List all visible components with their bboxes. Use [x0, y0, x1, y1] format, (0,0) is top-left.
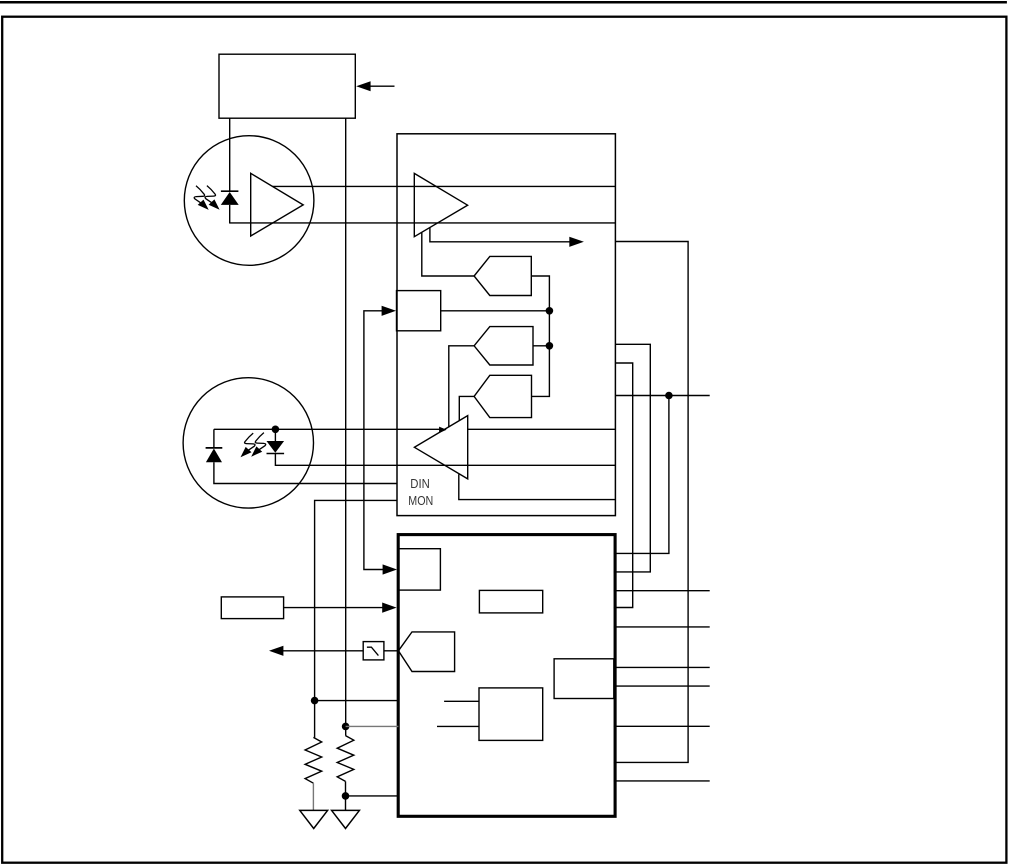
wire to flag F1 — [422, 232, 474, 276]
node dot on R2 net upper — [342, 723, 350, 731]
wire ROSA output + — [273, 185, 616, 187]
arrowhead at driver hypotenuse — [439, 427, 447, 433]
arrow into top box — [356, 81, 394, 91]
svg-text:DIN: DIN — [410, 476, 430, 491]
wire MON net into lower block — [315, 700, 399, 702]
wire MON pin to lower left net — [315, 500, 397, 700]
resistor R2 — [337, 736, 354, 782]
page top rule — [0, 1, 1007, 4]
photodiode D1 — [221, 192, 239, 205]
wire filter output going left with arrow — [283, 650, 364, 652]
arrowhead filter output — [269, 646, 283, 656]
wire driver input upper — [468, 428, 616, 430]
wire upper block pin to lower block right pin 1 — [614, 242, 688, 763]
wire upper block pin to lower block right pin 3 — [614, 363, 633, 608]
TOSA circle — [183, 378, 313, 508]
wire upper block pin to lower block right pin 2 — [614, 344, 651, 572]
ROSA circle — [184, 136, 314, 266]
wire flag F3 input — [459, 396, 474, 421]
svg-text:MON: MON — [408, 493, 433, 508]
wire long vertical from top box right down to resistor R2 — [345, 118, 347, 735]
node dot laser anode — [272, 426, 280, 434]
lower IC block — [398, 535, 615, 817]
ROSA preamp triangle — [251, 173, 304, 236]
wire laser cathode down — [275, 454, 615, 466]
wire with arrow into small box, continuing down to lower block — [364, 311, 384, 570]
external stub 1 — [614, 590, 710, 592]
external stub 6 — [614, 780, 710, 782]
wire monitor pd bottom lead to DIN pin — [214, 462, 397, 483]
wire from left input box with arrow into lower block — [284, 607, 384, 609]
wire upper block pin to external stub with junction — [615, 395, 710, 397]
wire junction down into lower block right pin — [614, 396, 669, 554]
wire photodiode anode lead — [229, 205, 231, 224]
wire R2 net into lower block — [346, 725, 399, 727]
flag F2 — [474, 327, 533, 365]
wire bias line to driver with arrow — [214, 428, 440, 430]
wire from top box left to photodiode — [229, 118, 231, 191]
node junction dot — [546, 307, 554, 315]
laser diode — [267, 441, 285, 453]
wire monitor pd top lead — [213, 429, 215, 448]
light ray arrow 2 in TOSA — [241, 433, 256, 457]
wire stub into box 3 upper — [444, 700, 479, 702]
arrowhead into small box — [382, 306, 396, 316]
laser driver triangle — [414, 416, 467, 479]
external stub 2 — [614, 626, 710, 628]
left input box — [221, 597, 283, 619]
arrow right inside upper block — [569, 237, 584, 247]
lower block box 1 — [398, 549, 440, 590]
node junction dot — [665, 392, 673, 400]
upper IC block — [397, 134, 615, 516]
external stub 4 — [614, 685, 710, 687]
monitor photodiode cathode bar — [206, 447, 223, 449]
ground G2 — [332, 810, 360, 828]
wire ROSA output - — [230, 222, 616, 224]
node dot on R2 net lower — [342, 792, 350, 800]
wire flag F2 input — [449, 346, 474, 428]
flag F1 — [474, 256, 531, 295]
light ray arrow 2 into ROSA — [205, 186, 220, 210]
node junction dot — [546, 342, 554, 350]
flag F3 — [474, 375, 531, 417]
wire R2 bottom — [345, 781, 347, 810]
wire flag F1 output — [531, 276, 549, 396]
wire stub into box 3 lower — [437, 725, 479, 727]
flag F4 in lower block — [398, 632, 454, 672]
arrowhead into lower block left — [382, 603, 396, 613]
top box (photodiode bias) — [219, 54, 355, 118]
low pass filter box — [363, 642, 384, 660]
wire MON net down to resistor R1 — [314, 701, 316, 738]
wire R1 to ground — [312, 783, 314, 810]
lower block box 2 — [479, 590, 542, 613]
wire flag F2 output — [533, 345, 549, 347]
arrowhead into lower block top — [383, 564, 397, 574]
light ray arrow 1 into ROSA — [194, 186, 209, 210]
ground G1 — [300, 810, 328, 828]
lower block box 4 on right edge — [554, 659, 614, 699]
filter curve — [367, 647, 379, 655]
external stub 5 — [614, 725, 710, 727]
small box on left edge of upper block — [397, 291, 441, 331]
light ray arrow 1 in TOSA — [251, 433, 266, 457]
wire filter to flag F4 — [384, 650, 399, 652]
wire from limiting amp to right arrow — [430, 228, 570, 242]
wire laser lead — [274, 429, 276, 441]
monitor photodiode — [206, 449, 222, 463]
node dot MON net — [311, 697, 319, 705]
wire small box output — [441, 310, 550, 312]
photodiode D1 cathode bar — [221, 190, 239, 192]
laser diode bar — [267, 453, 285, 455]
limiting amp triangle — [414, 173, 467, 236]
external stub 3 — [614, 666, 710, 668]
wire R2 lower net into lower block — [346, 795, 399, 797]
resistor R1 — [305, 737, 322, 783]
wire driver tap to right edge — [459, 474, 616, 499]
lower block box 3 — [479, 688, 543, 741]
